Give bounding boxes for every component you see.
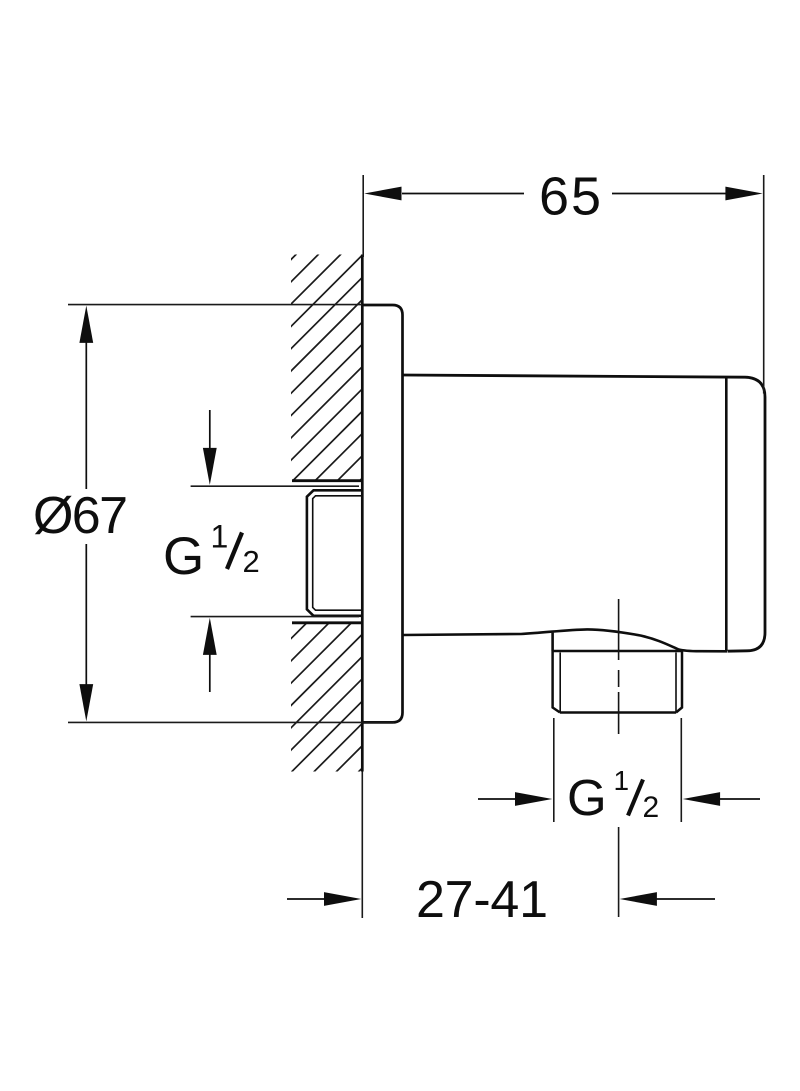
dim 65: left extension line — [362, 175, 364, 257]
outlet boss left edge — [551, 633, 554, 651]
outlet thread dim: left extension line — [553, 718, 555, 822]
inlet socket G1/2 thread (behind wall) — [307, 490, 362, 616]
dim 27-41: right arrow — [655, 898, 715, 900]
body outline (top edge, rounded cap, right edge) — [403, 375, 766, 651]
outlet thread dim: left arrow — [478, 798, 516, 800]
dim 27-41: left arrow — [287, 898, 326, 900]
dim O67: top arrow — [79, 306, 93, 343]
dim O67: bottom arrow — [79, 684, 93, 721]
svg-text:2: 2 — [243, 544, 260, 579]
dim 65: left arrow — [364, 187, 401, 201]
svg-text:1: 1 — [614, 765, 630, 796]
wall hole lower edge — [292, 621, 362, 624]
wall face line — [361, 255, 364, 772]
outlet thread dim: right arrow — [719, 798, 760, 800]
dim O67: top extension line — [68, 304, 362, 306]
svg-text:G: G — [567, 769, 607, 826]
dim 27-41: wall-side extension line — [361, 772, 363, 919]
inlet socket thread inner lines — [313, 496, 362, 610]
dim 65: right extension line — [763, 175, 765, 394]
svg-text:1: 1 — [211, 519, 229, 555]
outlet centerline (dash-dot) — [618, 599, 620, 734]
centerline lower extension — [618, 827, 620, 917]
body-cap joint line — [725, 378, 728, 651]
wall hole upper edge — [292, 479, 362, 482]
inlet thread dim: upper extension line — [191, 485, 359, 487]
outlet thread label G 1/2 — [567, 765, 659, 826]
dim 65: dimension line — [402, 193, 727, 195]
flange (escutcheon) — [362, 305, 403, 722]
inlet thread dim: lower extension line — [191, 616, 359, 618]
svg-text:G: G — [163, 527, 204, 586]
dim 65: right arrow — [725, 187, 762, 201]
outlet thread outer outline — [553, 651, 682, 713]
svg-text:65: 65 — [539, 167, 601, 227]
wall hatch (section lines) — [0, 253, 800, 776]
inlet thread dim: upper arrow — [209, 410, 211, 450]
svg-text:Ø67: Ø67 — [33, 487, 128, 545]
svg-text:27-41: 27-41 — [416, 871, 548, 929]
dim O67: dimension line — [85, 340, 87, 688]
body bottom edge with outlet boss curve — [403, 629, 728, 651]
outlet thread dim: right extension line — [680, 718, 682, 822]
outlet thread inner lines — [560, 653, 676, 712]
svg-text:2: 2 — [643, 791, 660, 824]
dim O67: bottom extension line — [68, 721, 394, 723]
inlet thread label G 1/2 — [163, 519, 260, 586]
inlet thread dim: lower arrow — [209, 654, 211, 692]
